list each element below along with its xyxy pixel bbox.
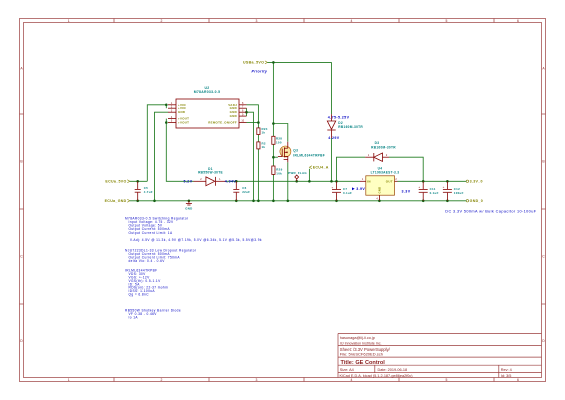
svg-text:4.29V: 4.29V: [328, 136, 340, 140]
resistor R29: [272, 166, 283, 175]
svg-text:2: 2: [161, 19, 163, 23]
wire R28 to gate: [272, 144, 274, 157]
svg-text:GND: GND: [185, 207, 192, 211]
title block: [338, 334, 542, 379]
regulator U2: [168, 86, 247, 128]
junction: [446, 180, 449, 183]
resistor R24: [257, 127, 268, 134]
svg-text:Size: A4: Size: A4: [340, 368, 354, 372]
hierarchical label ECUa_GND: [105, 199, 130, 203]
hierarchical label GND_0: [466, 199, 483, 203]
junction: [272, 122, 275, 125]
diode D3: [365, 141, 396, 162]
hierarchical label ECU4_A: [309, 166, 328, 170]
wire ECU4_A drop: [308, 169, 310, 182]
svg-text:Priority: Priority: [252, 69, 268, 73]
junction: [272, 156, 275, 159]
svg-text:ECUa_5VO: ECUa_5VO: [105, 180, 126, 184]
svg-text:1k: 1k: [262, 131, 266, 135]
svg-text:+: +: [443, 185, 445, 189]
svg-text:IN: IN: [367, 179, 371, 183]
svg-text:4: 4: [351, 19, 353, 23]
svg-text:1: 1: [68, 378, 70, 382]
svg-text:REMOTE_ON/OFF: REMOTE_ON/OFF: [208, 121, 237, 125]
svg-text:+: +: [332, 185, 334, 189]
svg-text:RB550W-30TE: RB550W-30TE: [198, 170, 223, 174]
hierarchical label ECUa_5VO: [105, 180, 129, 184]
junction: [272, 61, 275, 64]
svg-text:4: 4: [351, 378, 353, 382]
wire D3 right: [389, 157, 423, 181]
junction: [378, 200, 381, 203]
junction: [235, 180, 238, 183]
wire VIN riser: [147, 105, 166, 182]
wire USB drop to Q3: [272, 62, 274, 123]
svg-text:3.3V_0: 3.3V_0: [470, 180, 483, 184]
junction: [136, 200, 139, 203]
junction: [235, 200, 238, 203]
svg-text:3: 3: [256, 19, 258, 23]
svg-text:+VOUT: +VOUT: [178, 121, 189, 125]
note NJU7223 specs: [125, 249, 197, 263]
diode D1: [194, 167, 226, 186]
svg-text:GND_0: GND_0: [470, 199, 483, 203]
svg-text:USBa_5VO: USBa_5VO: [243, 61, 264, 65]
note RB550W specs: [125, 309, 181, 320]
svg-text:ECUa_GND: ECUa_GND: [105, 199, 127, 203]
wire VADJ: [247, 105, 259, 128]
junction: [422, 180, 425, 183]
svg-text:+: +: [418, 185, 420, 189]
svg-text:3.9V: 3.9V: [356, 187, 365, 191]
wire VOUT drop: [166, 119, 193, 182]
resistor R2: [257, 141, 266, 149]
svg-text:delta Vio: 0.4 - 0.6V: delta Vio: 0.4 - 0.6V: [129, 259, 166, 263]
svg-text:OUT: OUT: [386, 179, 393, 183]
svg-text:M78AR033-0.5: M78AR033-0.5: [194, 90, 221, 94]
wire gate: [273, 156, 278, 158]
note 3.9V: [352, 187, 365, 191]
junction: [335, 180, 338, 183]
junction: [188, 200, 191, 203]
svg-text:V.Adj: 4.5V @ 11.3k, 4.9V @7.1: V.Adj: 4.5V @ 11.3k, 4.9V @7.19k, 5.0V @…: [130, 238, 262, 242]
junction: [335, 200, 338, 203]
junction: [330, 180, 333, 183]
svg-text:Rev: 4: Rev: 4: [501, 368, 512, 372]
capacitor C11: [418, 181, 438, 201]
svg-text:1: 1: [68, 19, 70, 23]
note IRLML6344 specs: [125, 269, 168, 297]
junction: [287, 200, 290, 203]
junction: [422, 200, 425, 203]
junction: [295, 180, 298, 183]
svg-text:PWR_FLAG: PWR_FLAG: [288, 171, 307, 175]
junction: [252, 200, 255, 203]
svg-text:10k: 10k: [276, 171, 282, 175]
wire GND rail: [130, 200, 466, 202]
svg-text:6: 6: [517, 19, 519, 23]
note M78AR033 specs: [125, 216, 262, 242]
svg-text:Title: GE Control: Title: GE Control: [341, 360, 386, 366]
svg-text:Q3: Q3: [293, 148, 298, 152]
svg-text:1k: 1k: [262, 145, 266, 149]
capacitor C6: [233, 181, 250, 201]
svg-text:D3: D3: [375, 141, 380, 145]
ground symbol: [185, 201, 192, 211]
junction: [165, 104, 168, 107]
svg-text:22uF: 22uF: [242, 190, 250, 194]
svg-text:Qg = 6.8nC: Qg = 6.8nC: [129, 293, 150, 297]
svg-text:3: 3: [256, 378, 258, 382]
svg-text:Output Current Limit: 1A: Output Current Limit: 1A: [129, 231, 173, 235]
svg-text:Date: 2019-06-18: Date: 2019-06-18: [378, 368, 408, 372]
wire USB rail: [267, 61, 331, 63]
wire OUT rail: [398, 180, 467, 182]
wire ECUa_5VO rail: [130, 180, 148, 182]
svg-text:3.3V: 3.3V: [402, 189, 411, 193]
junction: [153, 200, 156, 203]
svg-text:4.7uF: 4.7uF: [144, 190, 153, 194]
svg-text:Id: 3/5: Id: 3/5: [501, 374, 512, 378]
junction: [165, 121, 168, 124]
junction: [272, 200, 275, 203]
junction: [257, 121, 260, 124]
wire D2 bottom: [331, 138, 333, 181]
wire R24 to R2: [257, 135, 259, 142]
wire D2 top: [331, 62, 333, 114]
wire to Q3 drain: [273, 124, 287, 142]
regulator U4: [360, 166, 399, 200]
transistor Q3: [278, 142, 325, 163]
svg-text:0.1uF: 0.1uF: [430, 191, 439, 195]
svg-text:0.1uF: 0.1uF: [343, 191, 352, 195]
svg-text:GND: GND: [377, 187, 381, 194]
wire Q3 source down: [287, 162, 289, 201]
svg-text:IIJ Innovation Institute Inc.: IIJ Innovation Institute Inc.: [340, 341, 382, 345]
svg-text:RB160M-30TR: RB160M-30TR: [338, 125, 363, 129]
resistor R28: [272, 136, 282, 144]
junction: [245, 111, 248, 114]
hierarchical label USBa_5VO: [243, 61, 267, 65]
svg-text:LT1963AEST-3.3: LT1963AEST-3.3: [371, 171, 400, 175]
svg-text:IRLML6344TRPBF: IRLML6344TRPBF: [293, 154, 325, 158]
svg-text:6: 6: [517, 378, 519, 382]
wire D3 left: [337, 157, 366, 181]
svg-text:100: 100: [276, 140, 282, 144]
wire REMOTE_ON/OFF: [247, 122, 259, 124]
svg-text:GND: GND: [230, 114, 237, 118]
wire U2 GND pins jumper: [246, 108, 248, 116]
svg-text:hasunaga@iij-ii.co.jp: hasunaga@iij-ii.co.jp: [340, 336, 375, 340]
svg-text:File: 5VeSCF620ED.sch: File: 5VeSCF620ED.sch: [340, 351, 383, 356]
svg-text:DC 3.3V 500mA w/ Bulk Capacito: DC 3.3V 500mA w/ Bulk Capacitor 10-100uF: [445, 209, 536, 213]
diode D2: [327, 114, 363, 138]
wire D1 cathode rail: [226, 180, 360, 182]
svg-text:5: 5: [446, 19, 448, 23]
wire gate to R29: [272, 157, 274, 166]
svg-text:KiCad E.D.A. kicad (5.1.2-187: KiCad E.D.A. kicad (5.1.2-187-ge86ea2f0c…: [340, 374, 414, 378]
capacitor C12: [443, 181, 464, 201]
hierarchical label 3.3V_0: [466, 180, 483, 184]
wire VIN pin jumper: [165, 105, 167, 108]
junction: [136, 180, 139, 183]
svg-text:GND: GND: [178, 110, 185, 114]
junction: [308, 180, 311, 183]
svg-text:4.75-5.25V: 4.75-5.25V: [328, 115, 350, 119]
capacitor C7: [332, 181, 353, 201]
junction: [446, 200, 449, 203]
svg-text:2: 2: [161, 378, 163, 382]
svg-text:Io 1A: Io 1A: [129, 316, 139, 320]
svg-text:5: 5: [446, 378, 448, 382]
capacitor C5: [135, 181, 153, 201]
power flag PWR_FLAG: [288, 171, 307, 181]
wire R29 to GND rail: [272, 174, 274, 200]
junction: [257, 200, 260, 203]
wire R2 to GND rail: [257, 149, 259, 201]
svg-text:4.94V: 4.94V: [225, 180, 237, 184]
svg-text:RB160M-30TR: RB160M-30TR: [371, 146, 396, 150]
svg-text:100uF: 100uF: [454, 191, 464, 195]
wire GND pin 3: [155, 112, 169, 201]
wire U2 GND drop: [247, 112, 254, 201]
svg-text:5.2V: 5.2V: [184, 180, 193, 184]
svg-text:ECU4_A: ECU4_A: [313, 166, 329, 170]
wire to R28: [272, 124, 274, 137]
